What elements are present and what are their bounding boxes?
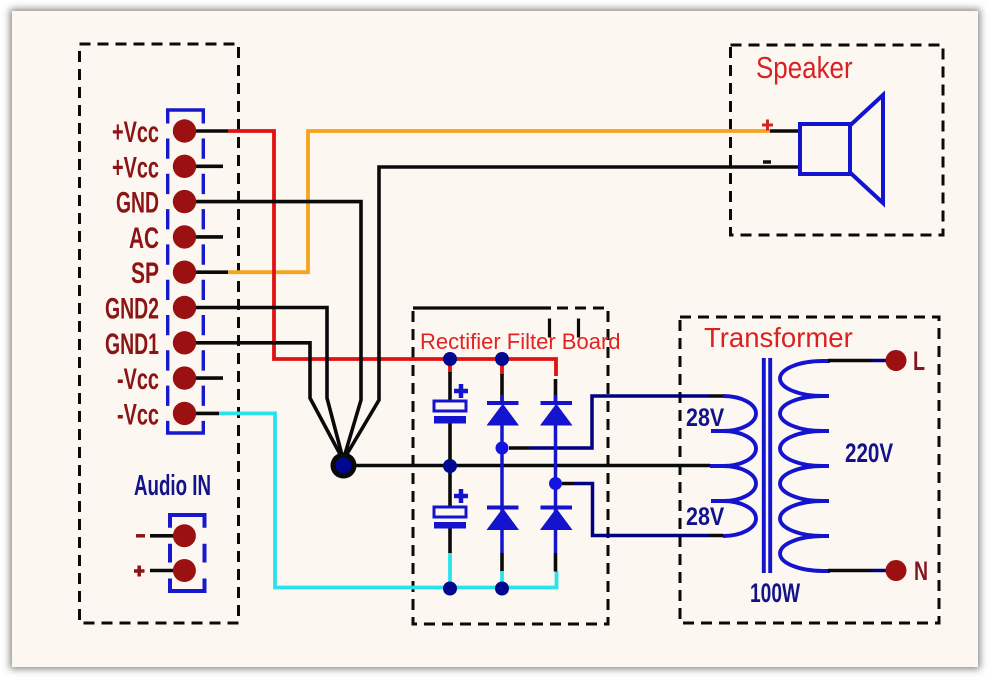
svg-text:Transformer: Transformer bbox=[704, 322, 853, 353]
svg-text:-Vcc: -Vcc bbox=[117, 363, 159, 396]
svg-text:28V: 28V bbox=[686, 403, 725, 431]
svg-text:AC: AC bbox=[129, 222, 159, 255]
svg-text:Rectifier Filter Board: Rectifier Filter Board bbox=[420, 329, 621, 354]
svg-text:28V: 28V bbox=[686, 502, 725, 530]
svg-text:+Vcc: +Vcc bbox=[112, 116, 159, 149]
svg-text:GND1: GND1 bbox=[105, 328, 159, 361]
svg-text:N: N bbox=[914, 556, 928, 586]
svg-text:GND2: GND2 bbox=[105, 292, 159, 325]
svg-text:Audio IN: Audio IN bbox=[134, 470, 211, 502]
svg-text:220V: 220V bbox=[845, 438, 893, 468]
svg-text:+Vcc: +Vcc bbox=[112, 151, 159, 184]
svg-text:-Vcc: -Vcc bbox=[117, 398, 159, 431]
svg-text:SP: SP bbox=[131, 258, 159, 290]
svg-text:Speaker: Speaker bbox=[756, 51, 853, 86]
svg-text:L: L bbox=[913, 347, 925, 377]
svg-text:GND: GND bbox=[116, 186, 159, 219]
svg-text:100W: 100W bbox=[750, 578, 801, 608]
